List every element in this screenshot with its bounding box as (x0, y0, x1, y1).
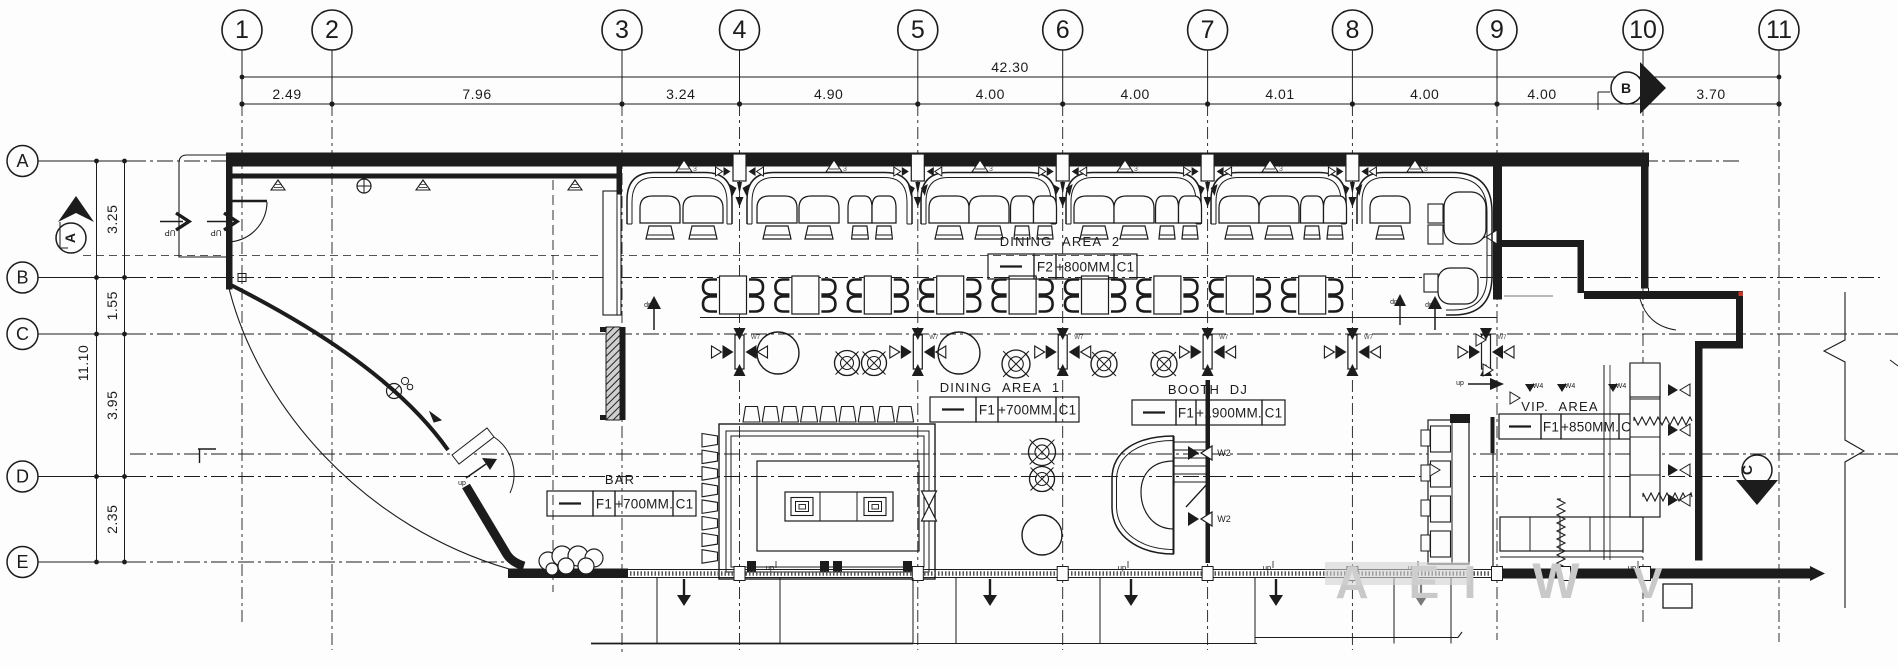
entry door leaf (226, 200, 267, 203)
svg-text:3: 3 (1134, 166, 1138, 173)
bowtie at booth corner wall (1475, 230, 1486, 244)
up arrow left (653, 305, 655, 330)
svg-text:F1: F1 (1543, 420, 1559, 435)
ceiling sprinkler clusters (739, 328, 741, 376)
right edge arrow (1890, 360, 1898, 366)
bottom right square (1663, 584, 1692, 608)
svg-text:3.24: 3.24 (666, 86, 695, 102)
grid 7 partition wall (1206, 380, 1211, 563)
VIP cabinet (1630, 363, 1660, 397)
svg-text:10: 10 (1629, 16, 1657, 44)
svg-text:4.90: 4.90 (814, 86, 843, 102)
door swing at grid 10 (1640, 299, 1676, 330)
column bubbles 1-11 (222, 10, 262, 50)
VIP right wall sprinklers (1668, 384, 1678, 396)
svg-text:4.01: 4.01 (1265, 86, 1294, 102)
grid 3 hatched wall (620, 327, 626, 420)
svg-text:1: 1 (235, 16, 249, 44)
svg-text:A: A (16, 151, 28, 171)
top exterior wall (226, 153, 1649, 167)
svg-text:7.96: 7.96 (462, 86, 491, 102)
section marker A (58, 196, 94, 222)
row bubbles A-E (7, 146, 38, 177)
svg-text:4.00: 4.00 (976, 86, 1005, 102)
bar stools top (743, 407, 760, 423)
svg-text:C1: C1 (676, 497, 694, 512)
svg-text:4.00: 4.00 (1410, 86, 1439, 102)
grid 10 wall (1641, 167, 1649, 289)
target symbols (835, 351, 860, 376)
svg-text:2.49: 2.49 (272, 86, 301, 102)
up arrow right (1434, 305, 1436, 330)
svg-text:W4: W4 (1616, 383, 1627, 390)
bottom frame lines (591, 643, 913, 645)
svg-text:2: 2 (325, 16, 339, 44)
svg-text:W7: W7 (751, 335, 761, 341)
diagonal door swing (494, 437, 514, 493)
svg-text:11: 11 (1766, 16, 1792, 44)
svg-text:V: V (1633, 559, 1663, 608)
svg-text:up: up (1390, 298, 1398, 305)
VIP boundary line (1492, 417, 1494, 567)
entry vestibule (179, 155, 226, 257)
VIP right bench (1630, 365, 1660, 517)
svg-text:3: 3 (615, 16, 629, 44)
up arrow in corner booth (1399, 302, 1401, 325)
bar structure (719, 424, 935, 579)
VIP dn arrow (1468, 383, 1492, 385)
entry door swing (227, 202, 267, 242)
svg-text:VIP. AREA: VIP. AREA (1521, 399, 1599, 414)
svg-text:3.25: 3.25 (104, 205, 120, 234)
svg-text:DINING AREA 1: DINING AREA 1 (940, 380, 1061, 395)
svg-text:dn: dn (458, 479, 466, 486)
svg-text:DINING AREA 2: DINING AREA 2 (1000, 234, 1121, 249)
wall columns with sprinkler fans (733, 154, 746, 181)
planters (757, 332, 799, 374)
dashed line under booths (83, 255, 1492, 257)
svg-text:up: up (644, 301, 652, 308)
left exterior wall stub (226, 153, 233, 290)
left dimension lines (96, 161, 98, 562)
svg-text:42.30: 42.30 (991, 59, 1029, 75)
svg-text:3: 3 (1424, 166, 1428, 173)
svg-text:W7: W7 (1219, 335, 1229, 341)
UP arrow 1 (160, 221, 183, 223)
thin glass curve (228, 284, 520, 572)
svg-text:+700MM.: +700MM. (998, 403, 1056, 418)
plants at wall end (539, 552, 557, 570)
svg-text:9: 9 (1490, 16, 1504, 44)
svg-text:F1: F1 (979, 403, 995, 418)
W2 symbols (1188, 446, 1199, 460)
svg-text:dn: dn (1118, 564, 1126, 573)
hose symbol on grid B (238, 274, 246, 282)
intermediate axis line (130, 453, 1898, 455)
svg-text:W7: W7 (929, 335, 939, 341)
segment dimension line (242, 103, 1779, 105)
svg-text:F2: F2 (1037, 260, 1053, 275)
DJ stair diagonal (1186, 483, 1208, 507)
svg-text:W: W (1532, 553, 1580, 609)
DJ booth inner curve (1141, 461, 1174, 529)
svg-text:W7: W7 (1074, 335, 1084, 341)
svg-text:3.70: 3.70 (1696, 86, 1725, 102)
svg-text:dn: dn (766, 564, 774, 573)
bar console (785, 492, 893, 521)
bar stools left (702, 434, 718, 448)
svg-text:A: A (62, 233, 78, 243)
svg-text:3.95: 3.95 (104, 391, 120, 420)
section marker B (1597, 92, 1599, 110)
svg-text:W7: W7 (1364, 335, 1374, 341)
svg-text:dn: dn (1456, 379, 1464, 386)
svg-text:7: 7 (1201, 16, 1215, 44)
svg-text:D: D (16, 467, 29, 487)
bay sprinkler triangles (676, 160, 692, 172)
dining area 2 table row (720, 276, 747, 314)
VIP W ticks (1483, 364, 1493, 376)
round table near bar (1022, 515, 1062, 555)
UP arrow 2 (207, 221, 228, 223)
svg-text:4: 4 (733, 16, 747, 44)
svg-text:3: 3 (1279, 166, 1283, 173)
svg-text:up: up (1425, 301, 1433, 308)
right break line (1824, 292, 1864, 608)
extra vertical reference line (552, 180, 554, 592)
svg-text:W4: W4 (1533, 383, 1544, 390)
svg-text:UP: UP (210, 228, 221, 237)
svg-text:6: 6 (1056, 16, 1070, 44)
corner booth tables and seats (1428, 204, 1443, 223)
dn arrow at diagonal door (466, 464, 486, 478)
svg-text:1.55: 1.55 (104, 291, 120, 320)
diagonal door leaf (452, 428, 494, 464)
horizontal grid lines A-E (38, 160, 131, 162)
walkway hatched strip (628, 569, 1500, 571)
curved west wall lower thick segment (466, 486, 524, 566)
right side walls (1493, 167, 1502, 300)
svg-text:5: 5 (911, 16, 925, 44)
svg-text:B: B (16, 268, 28, 288)
dining area 2 booths (627, 173, 732, 225)
vertical grid lines 1-11 (241, 50, 243, 104)
svg-text:W2: W2 (1217, 514, 1231, 524)
curved west wall thick (229, 284, 448, 450)
wall sprinkler ticks (271, 180, 285, 190)
svg-text:C1: C1 (1265, 406, 1283, 421)
svg-text:dn: dn (1263, 564, 1271, 573)
svg-text:BAR: BAR (605, 472, 635, 487)
svg-text:4.00: 4.00 (1121, 86, 1150, 102)
svg-text:C1: C1 (1117, 260, 1135, 275)
svg-text:E: E (16, 552, 28, 572)
keynote circle-cross symbol (387, 384, 402, 399)
svg-text:8: 8 (1345, 16, 1359, 44)
overall dimension line 42.30 (242, 76, 1779, 78)
walkway column gaps (734, 567, 745, 581)
walkway black section right (1500, 569, 1810, 579)
svg-text:C1: C1 (1059, 403, 1077, 418)
corner booth (1357, 173, 1492, 316)
svg-text:+700MM.: +700MM. (615, 497, 673, 512)
corner bracket near D (198, 448, 216, 450)
svg-text:2.35: 2.35 (104, 505, 120, 534)
svg-text:B: B (1621, 80, 1631, 96)
svg-text:3: 3 (693, 166, 697, 173)
svg-text:C: C (1739, 465, 1755, 475)
svg-text:3: 3 (989, 166, 993, 173)
grid 3 partition wall (603, 191, 621, 315)
svg-text:W4: W4 (1565, 383, 1576, 390)
bar feet (747, 561, 756, 572)
VIP coils (1634, 417, 1692, 425)
svg-text:C: C (16, 324, 29, 344)
svg-text:UP: UP (164, 228, 175, 237)
DJ stairs (1174, 441, 1206, 443)
svg-text:4.00: 4.00 (1527, 86, 1556, 102)
circled cross on wall (357, 179, 371, 193)
west wall bottom thick (508, 569, 628, 579)
svg-text:3: 3 (843, 166, 847, 173)
dn arrows below walkway (683, 579, 685, 598)
svg-text:F1: F1 (1178, 406, 1194, 421)
section marker C (1742, 455, 1772, 485)
bar side hourglass (922, 491, 937, 506)
small arrow tick (430, 412, 441, 422)
svg-text:F1: F1 (596, 497, 612, 512)
svg-text:W2: W2 (1217, 448, 1231, 458)
DJ booth outline (1112, 436, 1174, 554)
svg-text:+800MM.: +800MM. (1056, 260, 1114, 275)
VIP bottom bench (1500, 517, 1643, 551)
svg-text:W7: W7 (1498, 335, 1508, 341)
DJ booth flat side (1173, 436, 1175, 554)
svg-text:11.10: 11.10 (75, 345, 91, 382)
top interior wall line (232, 174, 622, 179)
VIP left sofa (1428, 420, 1469, 564)
red survey dot (1739, 292, 1744, 297)
